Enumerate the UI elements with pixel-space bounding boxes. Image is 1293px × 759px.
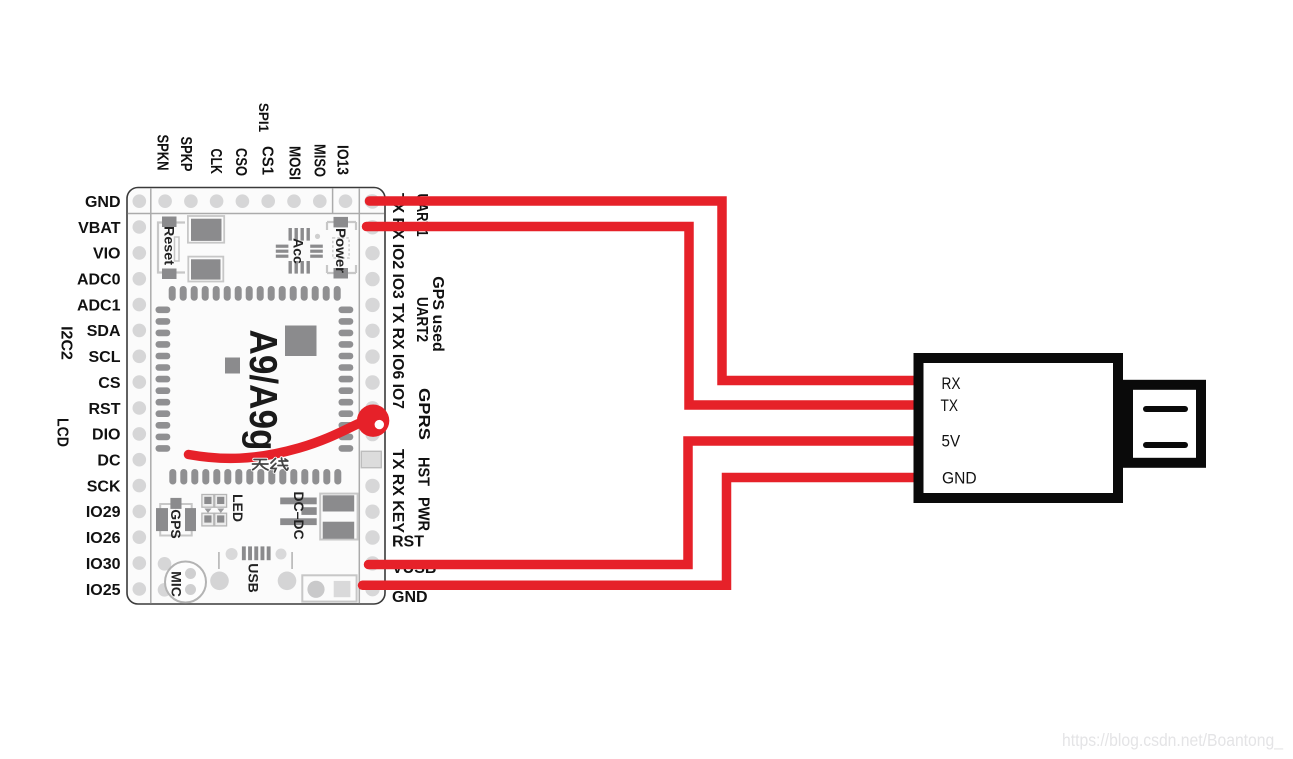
- svg-text:https://blog.csdn.net/Boantong: https://blog.csdn.net/Boantong_: [1062, 730, 1283, 751]
- board outline A9/A9g pudding board: [127, 188, 385, 605]
- right pad column pins UART1..GND: [365, 194, 379, 596]
- svg-text:USB: USB: [246, 563, 262, 593]
- svg-text:CS: CS: [98, 375, 121, 392]
- svg-text:CLK: CLK: [207, 149, 224, 175]
- svg-text:CS1: CS1: [259, 146, 276, 175]
- svg-text:SCK: SCK: [87, 478, 121, 495]
- wire board RX to adapter TX: [367, 227, 922, 406]
- Reset button: [158, 217, 185, 280]
- svg-text:GPRS: GPRS: [415, 388, 432, 440]
- svg-text:ADC0: ADC0: [77, 272, 121, 289]
- USB-TTL adapter box U2: [919, 358, 1119, 498]
- top pin name labels: [154, 135, 351, 181]
- svg-text:SPKP: SPKP: [177, 137, 194, 172]
- LED pair D1 D2: [202, 494, 246, 526]
- svg-text:GPS used: GPS used: [429, 276, 446, 352]
- Power button: [327, 217, 356, 279]
- right bus labels UART1 UART2 GPRS HST PWR: [413, 194, 432, 532]
- svg-text:LED: LED: [230, 494, 246, 522]
- svg-text:DC–DC: DC–DC: [291, 491, 307, 539]
- left pin name labels: [77, 194, 121, 599]
- svg-text:MISO: MISO: [311, 144, 328, 177]
- USB plug: [1128, 385, 1201, 463]
- svg-text:MOSI: MOSI: [286, 146, 303, 180]
- svg-text:RST: RST: [392, 534, 424, 551]
- svg-text:IO29: IO29: [86, 504, 121, 521]
- adapter pin labels: [941, 374, 977, 488]
- svg-text:IO25: IO25: [86, 582, 121, 599]
- svg-text:UART2: UART2: [413, 297, 430, 342]
- bottom-left extra pads: [158, 557, 172, 597]
- left pad column pins GND..IO25: [133, 194, 147, 595]
- svg-text:IO13: IO13: [334, 145, 351, 175]
- antenna callout curve: [189, 423, 362, 459]
- USB connector: [210, 546, 296, 592]
- svg-text:VBAT: VBAT: [78, 220, 121, 237]
- svg-text:GND: GND: [85, 194, 121, 211]
- svg-text:Reset: Reset: [162, 226, 178, 265]
- module right edge pads: [339, 307, 354, 452]
- accelerometer U-Acc footprint: [276, 228, 323, 274]
- module left edge pads: [156, 307, 171, 452]
- svg-text:CSO: CSO: [232, 148, 249, 176]
- capacitor C near Reset (bottom): [188, 257, 223, 282]
- antenna text tian-xian (drawn strokes): [253, 458, 289, 472]
- svg-text:IO26: IO26: [86, 530, 121, 547]
- svg-text:SCL: SCL: [89, 349, 121, 366]
- svg-text:A9/A9g: A9/A9g: [241, 330, 284, 451]
- GPS crystal: [156, 498, 196, 539]
- module top edge pads: [169, 286, 341, 301]
- antenna circle hole: [375, 420, 384, 429]
- svg-text:5V: 5V: [942, 432, 961, 451]
- svg-text:ADC1: ADC1: [77, 297, 121, 314]
- svg-text:GND: GND: [942, 469, 977, 488]
- microphone MIC: [165, 562, 206, 603]
- svg-text:MIC: MIC: [169, 571, 185, 597]
- svg-text:DIO: DIO: [92, 427, 120, 444]
- svg-text:GND: GND: [392, 589, 428, 606]
- wire adapter 5V to board VUSB: [369, 441, 922, 565]
- svg-text:RST: RST: [89, 401, 121, 418]
- svg-text:VIO: VIO: [93, 246, 121, 263]
- IC small square: [225, 358, 240, 374]
- antenna circle mark: [357, 405, 389, 437]
- svg-text:SDA: SDA: [87, 323, 121, 340]
- top pad row pins SPKN..IO13: [158, 194, 378, 208]
- svg-text:RX: RX: [942, 374, 961, 393]
- wire board TX to adapter RX: [370, 201, 922, 381]
- svg-text:TX RX KEY: TX RX KEY: [389, 449, 406, 533]
- right pin name labels column: [389, 193, 406, 533]
- right square pad VUSB-row: [361, 451, 381, 467]
- svg-text:DC: DC: [97, 453, 121, 470]
- wire adapter GND to board GND: [363, 478, 922, 586]
- DC-DC output caps box: [320, 494, 357, 540]
- svg-text:SPKN: SPKN: [154, 135, 171, 171]
- DC-DC converter L + caps: [280, 498, 317, 526]
- svg-text:IO30: IO30: [86, 556, 121, 573]
- svg-text:LCD: LCD: [54, 418, 71, 447]
- svg-text:TX: TX: [941, 396, 959, 415]
- svg-text:I2C2: I2C2: [58, 326, 75, 360]
- IC big square: [285, 326, 317, 357]
- inner separator lines: [128, 188, 384, 604]
- svg-text:Acc: Acc: [291, 238, 307, 264]
- svg-text:GPS: GPS: [168, 509, 184, 539]
- capacitor C near Reset (top): [188, 216, 224, 243]
- module bottom edge pads: [169, 469, 341, 485]
- svg-text:HST: HST: [415, 457, 432, 486]
- svg-text:PWR: PWR: [415, 497, 432, 531]
- USB plug contact bars: [1146, 406, 1185, 412]
- svg-text:Power: Power: [333, 228, 349, 274]
- svg-text:SPI1: SPI1: [256, 103, 271, 133]
- bottom-right GND pad box: [302, 575, 356, 601]
